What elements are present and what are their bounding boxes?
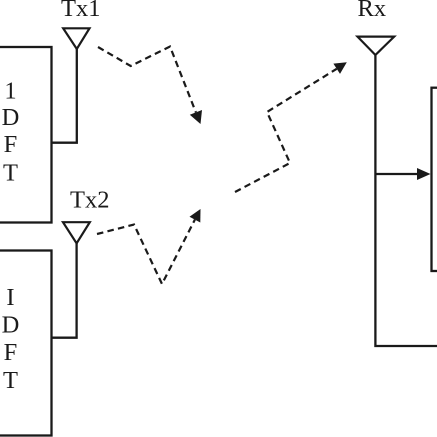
wire arrow into DFT block [375,173,419,175]
IDFT block 1 (top transmitter) [0,47,52,223]
wire Tx1 feed [51,48,77,143]
IDFT block 2 (bottom transmitter) [0,251,52,436]
label IDFT1 text [2,78,20,187]
svg-text:Rx: Rx [358,0,387,22]
wire Rx feed down and right [375,54,437,346]
svg-text:T: T [3,367,18,394]
svg-text:F: F [4,339,18,366]
svg-text:D: D [2,104,20,131]
svg-text:D: D [2,312,20,339]
wire channel path h11 from Tx1 (dashed) [98,47,196,113]
antenna Tx2 [63,222,90,243]
svg-text:T: T [3,160,18,187]
DFT block (receiver, cut off at right edge) [432,88,437,271]
svg-text:F: F [4,131,18,158]
antenna Rx [358,37,395,55]
svg-text:Tx2: Tx2 [70,187,109,214]
wire channel path h21 from Tx2 (dashed) [97,220,195,284]
antenna Tx1 [63,28,89,49]
svg-text:Tx1: Tx1 [61,0,100,22]
wire channel path to Rx (dashed) [235,69,337,192]
svg-text:1: 1 [4,78,16,105]
label IDFT2 text [2,284,20,394]
wire Tx2 feed [51,243,77,338]
svg-text:I: I [6,284,14,311]
